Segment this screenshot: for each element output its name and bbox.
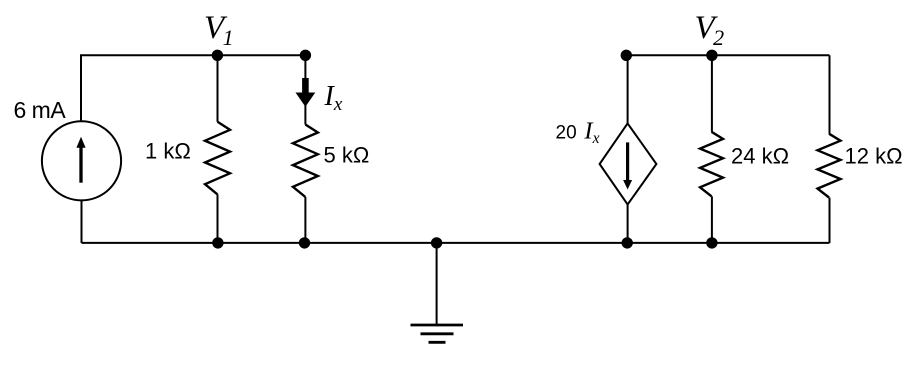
resistor R1 1 kOhm xyxy=(205,122,230,195)
resistor R4 12 kOhm leads xyxy=(829,55,831,133)
resistor R2 5 kOhm leads xyxy=(304,55,306,79)
svg-text:24 kΩ: 24 kΩ xyxy=(731,144,789,169)
ground xyxy=(436,243,438,325)
svg-text:12 kΩ: 12 kΩ xyxy=(845,144,903,169)
resistor R1 1 kOhm leads xyxy=(217,55,219,122)
svg-text:6 mA: 6 mA xyxy=(14,97,67,123)
current arrow Ix xyxy=(302,78,309,93)
node dot bottom of 5k xyxy=(299,237,310,248)
wire bottom rail xyxy=(82,242,830,244)
node dot bottom of 1k xyxy=(212,237,223,248)
resistor R2 5 kOhm xyxy=(293,125,318,198)
node V1 junction dot xyxy=(212,50,223,61)
svg-text:1 kΩ: 1 kΩ xyxy=(145,139,191,164)
node dot bottom of 24k xyxy=(706,237,717,248)
resistor R4 12 kOhm xyxy=(818,134,841,198)
node dot top of 5k xyxy=(300,50,311,61)
node dot bottom of diamond xyxy=(622,237,633,248)
dependent source 20Ix diamond xyxy=(600,123,657,204)
wire top-left rail node V1 xyxy=(81,55,305,121)
svg-text:5 kΩ: 5 kΩ xyxy=(324,142,370,167)
current source I1 6 mA xyxy=(42,121,121,200)
wire top-right rail node V2 xyxy=(626,54,829,56)
wire current source to bottom rail xyxy=(81,200,83,243)
resistor R3 24 kOhm xyxy=(700,132,723,197)
resistor R3 24 kOhm leads xyxy=(711,55,713,132)
dependent source 20Ix leads xyxy=(627,55,629,123)
node V2 dot top of diamond xyxy=(621,50,632,61)
node dot top of 24k xyxy=(706,50,717,61)
node dot ground xyxy=(431,237,442,248)
